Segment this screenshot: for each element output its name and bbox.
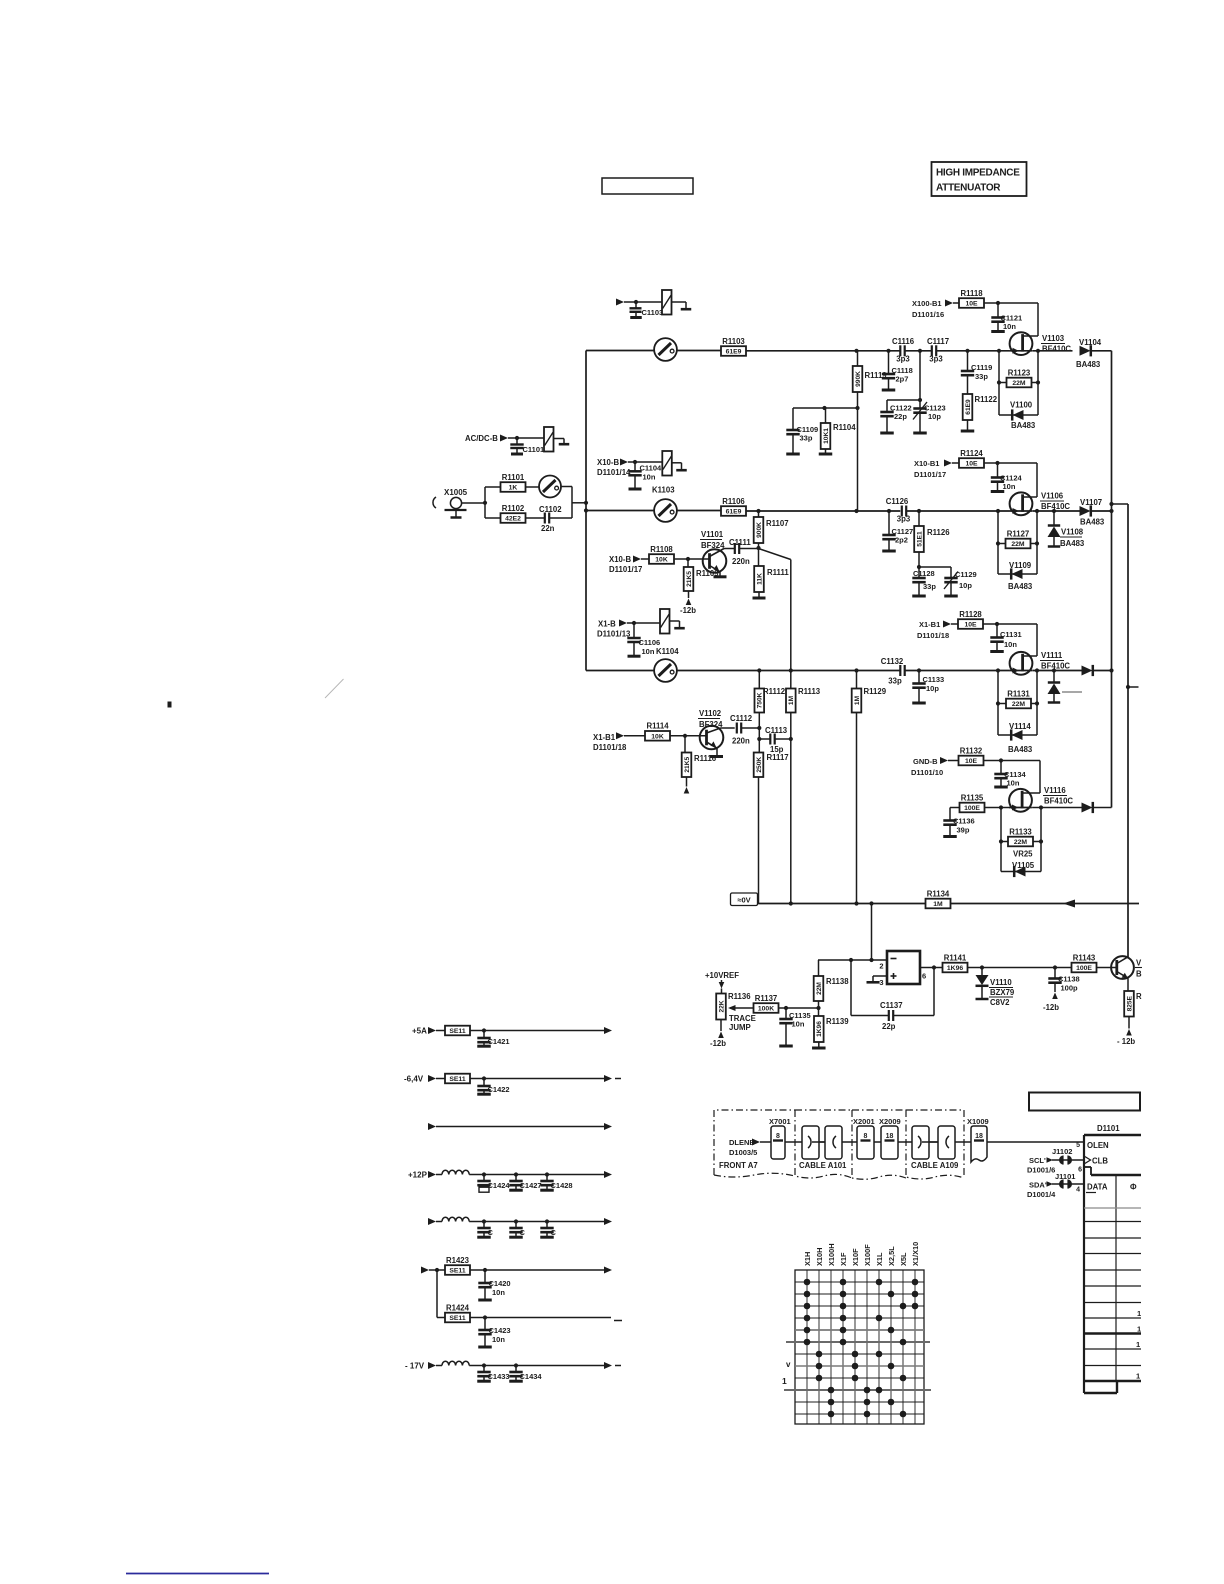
svg-text:10E: 10E — [964, 622, 977, 629]
svg-text:R1139: R1139 — [826, 1017, 849, 1026]
svg-text:R1122: R1122 — [975, 395, 998, 404]
svg-text:10n: 10n — [643, 473, 656, 482]
svg-text:R1111: R1111 — [767, 568, 789, 577]
svg-text:C1128: C1128 — [913, 569, 935, 578]
svg-text:10p: 10p — [959, 581, 972, 590]
svg-text:33p: 33p — [800, 434, 813, 443]
wire R1119 down to junction — [857, 392, 859, 511]
svg-text:v: v — [786, 1360, 791, 1369]
svg-text:1: 1 — [1137, 1325, 1141, 1334]
relay K1104 — [660, 609, 670, 634]
svg-text:X10-B: X10-B — [597, 458, 619, 467]
svg-text:10K1: 10K1 — [823, 428, 830, 444]
svg-text:10p: 10p — [926, 684, 939, 693]
svg-text:D1101/18: D1101/18 — [593, 743, 627, 752]
wire R1113 chain down — [790, 713, 792, 904]
wire R1103 to C1116 — [746, 350, 900, 352]
wire R1132 corner — [984, 760, 1041, 762]
wire cable a — [812, 1141, 832, 1143]
svg-text:2p2: 2p2 — [895, 536, 908, 545]
svg-text:X10-B1: X10-B1 — [914, 459, 939, 468]
svg-text:R1118: R1118 — [960, 289, 983, 298]
resistor R1104 — [825, 408, 827, 423]
switch S-input — [539, 476, 561, 498]
node C1106 — [632, 621, 636, 625]
capacitor C1106 — [633, 623, 635, 638]
capacitor Cc — [546, 1222, 548, 1229]
svg-text:C1422: C1422 — [488, 1085, 510, 1094]
wire R1124 corner — [984, 462, 1037, 464]
svg-text:X1-B1: X1-B1 — [919, 620, 940, 629]
svg-text:BA483: BA483 — [1060, 539, 1085, 548]
resistor R1109 — [687, 559, 689, 567]
arrow X1-B — [619, 620, 627, 627]
svg-text:R1117: R1117 — [767, 753, 789, 762]
node input — [483, 501, 487, 505]
svg-text:D1101/14: D1101/14 — [597, 468, 631, 477]
jumper J1102 — [1059, 1155, 1064, 1164]
svg-text:X1009: X1009 — [967, 1117, 989, 1126]
resistor R1424 — [445, 1313, 470, 1323]
svg-text:V1109: V1109 — [1009, 561, 1032, 570]
arrow X1-B1 gate — [616, 732, 624, 739]
svg-text:R1423: R1423 — [446, 1256, 470, 1265]
svg-text:8: 8 — [776, 1133, 780, 1140]
svg-text:11K: 11K — [756, 573, 763, 585]
wire drain V1116 — [1039, 761, 1041, 794]
trimmer C1129 — [950, 577, 952, 578]
svg-text:D1101/13: D1101/13 — [597, 630, 631, 639]
capacitor C1138 — [1054, 968, 1056, 979]
svg-text:100K: 100K — [758, 1006, 774, 1013]
svg-text:39p: 39p — [957, 826, 970, 835]
capacitor C1427 — [515, 1175, 517, 1182]
svg-text:D1101/18: D1101/18 — [917, 631, 949, 640]
transistor V1111 — [1010, 652, 1033, 675]
svg-text:C1132: C1132 — [881, 657, 904, 666]
svg-text:1K96: 1K96 — [947, 965, 963, 972]
wire row2 to FET — [957, 510, 1010, 512]
resistor R1114 — [645, 731, 670, 741]
loop R1133/V1105 — [1000, 808, 1002, 872]
capacitor C1111 node — [756, 546, 760, 550]
svg-text:C1104: C1104 — [640, 464, 663, 473]
svg-text:2: 2 — [879, 962, 883, 971]
svg-text:X1-B1: X1-B1 — [593, 733, 616, 742]
svg-text:V: V — [1136, 959, 1142, 968]
svg-text:BA483: BA483 — [1011, 421, 1036, 430]
wire noninverting input — [873, 975, 887, 977]
svg-text:D1101/17: D1101/17 — [914, 470, 946, 479]
junction C1109/R1104 — [793, 407, 858, 409]
svg-text:10n: 10n — [1007, 779, 1020, 788]
supply -12b V1117 — [1128, 1017, 1130, 1029]
svg-text:22p: 22p — [882, 1022, 896, 1031]
capacitor C1423 — [484, 1318, 486, 1331]
svg-text:V1111: V1111 — [1041, 651, 1063, 660]
rail +5A — [436, 1030, 445, 1032]
resistor R1103 — [721, 346, 746, 356]
arrow X1-B1 — [943, 621, 951, 628]
resistor R1116 — [684, 736, 686, 753]
switch S1102 — [654, 499, 677, 522]
svg-text:J1102: J1102 — [1052, 1147, 1072, 1156]
resistor R1137 — [754, 1003, 779, 1013]
stub at bus2 — [1128, 686, 1139, 688]
wire R1114 to V1102 — [670, 735, 707, 737]
wire row1 left — [586, 350, 654, 352]
resistor R1129 — [856, 671, 858, 689]
wire R1141 to R1143 — [967, 967, 1072, 969]
svg-text:R1424: R1424 — [446, 1303, 470, 1312]
capacitor C1117 — [931, 345, 933, 356]
svg-text:R1127: R1127 — [1007, 529, 1030, 538]
wire R1118 to corner — [984, 302, 1038, 304]
svg-text:6: 6 — [1078, 1167, 1082, 1174]
svg-text:D1001/6: D1001/6 — [1027, 1166, 1055, 1175]
resistor R1142 825E — [1124, 991, 1134, 1017]
svg-text:-6,4V: -6,4V — [404, 1075, 424, 1084]
svg-text:825E: 825E — [1126, 995, 1133, 1011]
capacitor C1132 — [899, 665, 901, 676]
svg-text:22M: 22M — [1011, 541, 1025, 548]
svg-text:- 12b: - 12b — [1117, 1037, 1135, 1046]
svg-text:R1141: R1141 — [944, 953, 967, 962]
svg-text:V1106: V1106 — [1041, 492, 1064, 501]
svg-text:R1114: R1114 — [646, 722, 669, 731]
wire row3 — [586, 670, 654, 672]
supply -12b R1136 — [720, 1020, 722, 1032]
wire row2 — [586, 510, 654, 512]
svg-text:C1421: C1421 — [488, 1037, 510, 1046]
resistor R1102 — [485, 517, 501, 519]
svg-text:D1101/16: D1101/16 — [912, 310, 944, 319]
svg-text:C1427: C1427 — [520, 1181, 542, 1190]
V1101 emitter to ground — [710, 566, 721, 572]
capacitor Cb — [515, 1222, 517, 1229]
svg-text:C1420: C1420 — [489, 1279, 511, 1288]
svg-text:CABLE A101: CABLE A101 — [799, 1161, 847, 1170]
svg-text:D1101/17: D1101/17 — [609, 565, 642, 574]
svg-text:V1100: V1100 — [1010, 401, 1033, 410]
svg-text:R1123: R1123 — [1008, 368, 1031, 377]
svg-text:10K: 10K — [651, 733, 664, 740]
capacitor C1421 — [483, 1031, 485, 1039]
capacitor C1127 — [888, 511, 890, 535]
svg-text:SE11: SE11 — [449, 1028, 465, 1035]
wire SDA to DATA — [1052, 1183, 1084, 1185]
svg-text:R1138: R1138 — [826, 977, 849, 986]
svg-text:220n: 220n — [732, 557, 750, 566]
svg-text:5: 5 — [1076, 1142, 1080, 1149]
wire R1101 to SW — [526, 486, 540, 488]
resistor R1112 — [758, 671, 760, 689]
arrow X10-B1 — [944, 460, 952, 467]
capacitor C1118 — [888, 351, 890, 374]
svg-text:OLEN: OLEN — [1087, 1141, 1109, 1150]
wire V1116 out — [1032, 807, 1081, 809]
svg-text:R: R — [1136, 992, 1142, 1001]
capacitor C1109 — [792, 408, 794, 430]
node C1104 — [633, 460, 637, 464]
svg-text:R1126: R1126 — [927, 528, 950, 537]
resistor R1126 — [918, 511, 920, 526]
diode V1100 — [999, 414, 1038, 416]
wire inverting input — [818, 959, 887, 961]
resistor R1128 — [958, 619, 983, 629]
svg-text:3: 3 — [879, 978, 883, 987]
svg-text:X1/X10: X1/X10 — [911, 1242, 920, 1266]
svg-text:C1434: C1434 — [520, 1372, 543, 1381]
wire C1111 to node — [739, 548, 758, 550]
svg-text:C1103: C1103 — [642, 308, 664, 317]
svg-text:1K96: 1K96 — [816, 1021, 823, 1037]
zener V1110 — [981, 968, 983, 976]
svg-text:J1101: J1101 — [1055, 1172, 1075, 1181]
V1102 emitter to ground — [707, 742, 718, 748]
capacitor Ca — [483, 1222, 485, 1229]
svg-text:DATA: DATA — [1087, 1183, 1108, 1192]
capacitor C1420 — [484, 1270, 486, 1283]
svg-text:10n: 10n — [492, 1335, 505, 1344]
resistor R1106 — [721, 506, 746, 516]
svg-text:R1107: R1107 — [766, 519, 789, 528]
svg-text:X10F: X10F — [851, 1248, 860, 1266]
capacitor C1128 — [912, 577, 925, 580]
table divider — [1115, 1175, 1117, 1381]
svg-text:BA483: BA483 — [1008, 582, 1033, 591]
svg-text:C1129: C1129 — [955, 570, 977, 579]
svg-text:C1423: C1423 — [489, 1326, 511, 1335]
transistor V1106 — [1010, 492, 1033, 515]
svg-text:V1107: V1107 — [1080, 498, 1102, 507]
svg-text:10n: 10n — [1003, 322, 1016, 331]
box top right empty — [1029, 1093, 1140, 1111]
svg-text:R1104: R1104 — [833, 423, 856, 432]
table bottom bracket — [1084, 1392, 1117, 1394]
rail -6,4V wire — [470, 1078, 604, 1080]
svg-text:220n: 220n — [732, 737, 750, 746]
svg-text:R1112: R1112 — [763, 687, 786, 696]
svg-text:D1001/4: D1001/4 — [1027, 1190, 1056, 1199]
capacitor C1136 — [949, 808, 951, 821]
svg-text:SE11: SE11 — [449, 1076, 465, 1083]
svg-text:900K: 900K — [756, 522, 763, 538]
connector A109-a — [912, 1126, 929, 1159]
wire SW to corner — [561, 486, 572, 488]
matrix heavy rows — [786, 1341, 930, 1343]
resistor R1133 — [1008, 837, 1033, 847]
svg-text:R1103: R1103 — [722, 337, 745, 346]
svg-text:C1424: C1424 — [488, 1181, 511, 1190]
svg-text:BF410C: BF410C — [1044, 797, 1073, 806]
pin CLB — [1084, 1156, 1091, 1164]
block X2001 outline — [852, 1110, 906, 1179]
resistor R1117 — [754, 753, 764, 778]
node B drop to C1122/C1123 — [919, 351, 921, 400]
svg-text:V1116: V1116 — [1044, 786, 1066, 795]
rail R1424 wire — [470, 1317, 611, 1319]
svg-text:+10VREF: +10VREF — [705, 971, 739, 980]
svg-text:K1104: K1104 — [656, 647, 679, 656]
node C1101 — [515, 436, 519, 440]
IC D1101 outline — [1084, 1134, 1141, 1137]
resistor R1124 — [959, 458, 984, 468]
svg-text:C: C — [520, 1228, 526, 1237]
svg-text:C1113: C1113 — [765, 726, 788, 735]
svg-text:CABLE A109: CABLE A109 — [911, 1161, 959, 1170]
rail R1423 arrow — [421, 1267, 429, 1274]
block FRONT A7 outline — [714, 1110, 795, 1175]
resistor R1135 — [960, 803, 985, 813]
wire connector chain — [760, 1141, 1084, 1143]
svg-text:R1113: R1113 — [798, 687, 821, 696]
wire R1143 to V1117 — [1096, 967, 1117, 969]
rail +5A arrow — [428, 1027, 436, 1034]
svg-text:4: 4 — [1076, 1187, 1080, 1194]
feedback C1137 — [850, 960, 852, 1016]
supply arrow +10VREF — [721, 980, 723, 982]
capacitor C1112 — [736, 723, 738, 734]
transistor V1102 — [700, 726, 724, 750]
wire C1117 to FET — [936, 350, 1010, 352]
wire emitter V1117 — [1127, 978, 1129, 991]
resistor R1113 — [786, 689, 796, 713]
svg-text:C8V2: C8V2 — [990, 998, 1010, 1007]
capacitor C1422 — [483, 1079, 485, 1087]
svg-text:10n: 10n — [792, 1020, 805, 1029]
svg-text:100E: 100E — [964, 805, 980, 812]
arrow on R1134 wire — [1063, 900, 1075, 908]
svg-text:R1134: R1134 — [927, 889, 950, 898]
svg-text:61E9: 61E9 — [726, 509, 742, 516]
svg-text:61E9: 61E9 — [965, 399, 972, 415]
resistor R1111 — [754, 566, 764, 592]
wire R1137 to junction — [778, 1007, 819, 1009]
svg-text:22M: 22M — [1014, 839, 1028, 846]
inductor L1433 — [442, 1361, 469, 1365]
svg-text:SDA': SDA' — [1029, 1181, 1047, 1190]
svg-text:C1101: C1101 — [523, 445, 545, 454]
svg-text:C: C — [488, 1228, 494, 1237]
resistor R1122 — [963, 394, 973, 420]
svg-text:X2009: X2009 — [879, 1117, 901, 1126]
rail +5A wire — [470, 1030, 604, 1032]
junction C1128/C1129 — [917, 565, 921, 569]
page footer blue line — [126, 1573, 269, 1575]
diode V1112 — [1082, 666, 1093, 676]
supply arrow R1116 — [686, 777, 688, 787]
wire FET to diode V1104 — [1033, 350, 1073, 352]
svg-text:BF410C: BF410C — [1041, 662, 1070, 671]
connector A109-b — [938, 1126, 955, 1159]
svg-text:10n: 10n — [492, 1288, 505, 1297]
svg-text:B: B — [1136, 970, 1142, 979]
svg-text:X2,5L: X2,5L — [887, 1246, 896, 1266]
connector A101-a — [802, 1126, 819, 1159]
svg-text:X10-B: X10-B — [609, 555, 631, 564]
svg-text:V1102: V1102 — [699, 709, 722, 718]
capacitor C1135 — [785, 1008, 787, 1019]
wire row3 mid — [677, 670, 900, 672]
svg-text:C1126: C1126 — [886, 497, 909, 506]
svg-text:1: 1 — [1137, 1309, 1141, 1318]
svg-text:1: 1 — [782, 1376, 787, 1386]
wire jog bus1-bus2 — [1112, 503, 1129, 505]
loop R1131/V1114 — [997, 671, 999, 736]
svg-text:JUMP: JUMP — [729, 1023, 751, 1032]
svg-text:61E9: 61E9 — [726, 349, 742, 356]
svg-text:-12b: -12b — [1043, 1003, 1059, 1012]
resistor R1138 — [818, 960, 820, 976]
svg-text:SE11: SE11 — [449, 1315, 465, 1322]
relay K1102 — [662, 290, 672, 315]
svg-text:6: 6 — [922, 972, 926, 981]
svg-text:C1137: C1137 — [880, 1001, 903, 1010]
svg-text:BA483: BA483 — [1080, 518, 1105, 527]
wire row3 to FET — [905, 670, 1010, 672]
svg-text:C1111: C1111 — [729, 538, 751, 547]
svg-text:BF410C: BF410C — [1042, 345, 1071, 354]
wire R1135 to FET — [984, 807, 1010, 809]
capacitor C1122 — [886, 400, 888, 412]
svg-text:10p: 10p — [928, 412, 941, 421]
connector A101-b — [825, 1126, 842, 1159]
svg-text:21K5: 21K5 — [684, 757, 691, 773]
svg-text:R1136: R1136 — [728, 992, 751, 1001]
wire bus1 vertical — [1111, 351, 1113, 808]
arrow AC/DC-B — [500, 435, 508, 442]
wire X1005 to node — [462, 502, 485, 504]
svg-text:SE11: SE11 — [449, 1268, 465, 1275]
svg-text:X1F: X1F — [839, 1252, 848, 1266]
svg-text:X7001: X7001 — [769, 1117, 791, 1126]
svg-text:- 17V: - 17V — [405, 1362, 425, 1371]
transistor V1101 — [703, 549, 727, 573]
svg-text:X5L: X5L — [899, 1252, 908, 1266]
diode V1108 — [1053, 511, 1055, 525]
rail -17V arrow — [428, 1362, 436, 1369]
svg-text:R1129: R1129 — [864, 687, 887, 696]
loop R1127/V1109 — [997, 511, 999, 574]
capacitor C1434 — [515, 1366, 517, 1373]
wire V1104 to bus corner — [1092, 350, 1112, 352]
svg-text:GND-B: GND-B — [913, 757, 938, 766]
svg-text:10n: 10n — [1004, 640, 1017, 649]
wire branch up — [484, 487, 486, 518]
svg-text:C1433: C1433 — [488, 1372, 510, 1381]
svg-text:250K: 250K — [756, 757, 763, 773]
resistor R1118 — [959, 298, 984, 308]
rail R1423 wire — [470, 1269, 604, 1271]
wire V1107 to bus1 — [1092, 510, 1112, 512]
capacitor C1104 — [634, 462, 636, 471]
svg-text:X1-B: X1-B — [598, 620, 616, 629]
svg-text:D1101/10: D1101/10 — [911, 768, 943, 777]
wire cable b — [922, 1141, 942, 1143]
table rows — [1084, 1207, 1141, 1209]
svg-text:V1101: V1101 — [701, 530, 724, 539]
svg-text:10n: 10n — [1003, 482, 1016, 491]
HIGH IMPEDANCE ATTENUATOR label box — [932, 162, 1027, 196]
svg-text:X100F: X100F — [863, 1244, 872, 1266]
block CABLE A109 outline — [906, 1110, 964, 1179]
svg-text:R1106: R1106 — [722, 497, 745, 506]
svg-text:D1003/5: D1003/5 — [729, 1148, 757, 1157]
svg-text:51E1: 51E1 — [916, 531, 923, 547]
wire drain V1103 — [1037, 303, 1039, 336]
svg-text:HIGH IMPEDANCE: HIGH IMPEDANCE — [936, 168, 1020, 179]
